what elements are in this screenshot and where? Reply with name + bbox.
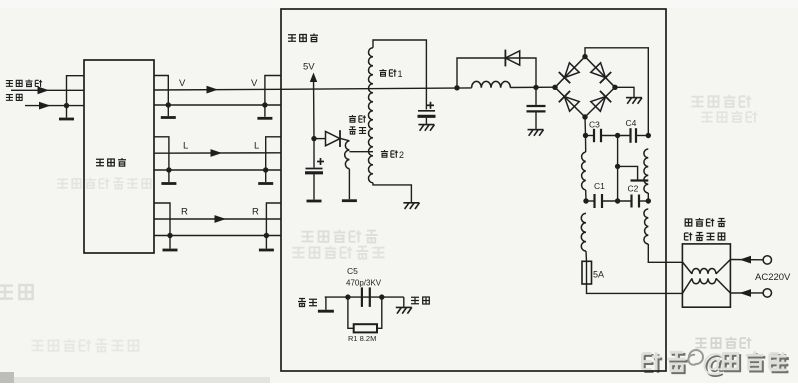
ground hatched node B cap [528,130,544,136]
wire left column upper [585,136,587,153]
ground hot (hatched) [396,307,412,313]
wire bridge bottom [584,117,587,136]
node C2 right [646,198,651,203]
node C3 left [583,133,588,138]
node R right shield junction [264,233,269,238]
diode bridge lower-right [591,97,606,112]
svg-text:C2: C2 [628,184,639,194]
capacitor electrolytic (T1 snubber) [418,110,435,112]
inductor filter winding right-lower [644,209,648,244]
node C5 left [345,294,350,299]
wire R1 left leg [348,297,354,328]
inductor degaussing coil [345,141,350,169]
wire bridge right to ground [615,87,634,97]
label cable (有线电视电缆) [6,81,13,87]
resistor R1 8.2M [354,324,377,332]
node C5 right [379,294,384,299]
arrow cable shield [39,102,51,110]
wire fuse to air switch [587,284,683,293]
node C4 right [646,133,651,138]
capacitor C4 [631,128,637,143]
capacitor electrolytic (5V rail) [306,168,323,170]
svg-text:L: L [254,141,259,152]
node cable shield junction [64,103,69,108]
tap bar junction [631,179,649,181]
node L left shield junction [166,167,171,172]
svg-text:L: L [183,141,188,152]
ground L left [161,182,176,185]
svg-text:C4: C4 [626,118,637,128]
wire right column to air switch [648,244,682,262]
node B main line [533,85,538,90]
wire middle column [617,136,619,202]
terminal circle upper [763,256,771,264]
svg-text:C5: C5 [347,266,358,276]
capacitor C5 470p/3KV [362,287,370,307]
svg-text:V: V [179,78,186,89]
wire tap to right winding [618,166,638,179]
arrow AC lower [740,289,752,297]
wire main line V to inductor [281,88,472,89]
diode bridge upper-right [591,63,606,78]
svg-text:5V: 5V [303,62,315,73]
wire AC terminal lower [730,292,763,294]
capacitor filter (node B) [527,106,546,111]
diode (这里击穿 breakdown here) [326,130,341,147]
node C1/C2 mid [615,198,620,203]
node V left shield junction [166,102,171,107]
ground R right [259,249,274,252]
wire L right hook [266,137,281,182]
inductor filter winding right-upper [644,149,648,193]
ground cold (bar) [318,310,334,313]
wire node B down [535,87,537,105]
wire R shield [154,235,281,237]
wire node to capacitor [313,139,315,168]
svg-text:R: R [181,207,188,218]
wire C3 row [586,135,595,137]
ground cable shield [59,118,74,121]
node C1 left [583,198,588,203]
label 切级2 [381,150,388,157]
node middle tap [615,164,620,169]
wire to fuse [585,251,588,261]
label 空气开关 [685,233,693,241]
wire R1 right leg [377,297,382,328]
wire coil to ground [348,169,350,199]
node V right shield junction [262,102,267,107]
wire cold ground drop [325,297,327,310]
label 热地 hot ground [411,297,419,304]
wire C2 right [639,200,648,202]
wire C3-C4 [601,135,631,137]
wire cable signal in [11,89,84,91]
svg-text:2: 2 [399,150,404,160]
inductor main line filter [472,81,511,87]
fuse 5A [586,261,588,284]
wire 5V column [313,76,316,139]
wire V shield [154,104,281,106]
node A main line [454,85,459,90]
wire bridge top link [585,48,648,136]
wire V right hook [265,76,281,117]
svg-text:C1: C1 [594,181,605,191]
wire right column mid [647,193,649,201]
ground coil [342,199,357,202]
inductor filter winding left-lower [581,213,586,251]
winding air switch lower [682,278,692,293]
wire L left hook [154,137,169,182]
svg-text:R: R [252,207,259,218]
arrow 5V up [310,73,317,83]
wire T1 top link [373,40,426,110]
wire L shield [154,169,281,171]
wire cap to ground [425,118,427,124]
arrow cable signal [38,86,50,94]
ground V left [161,116,176,119]
node bridge right [612,85,617,90]
svg-text:470p/3KV: 470p/3KV [346,279,382,288]
node bridge top [582,54,587,59]
set-top box 机顶盒 [84,60,154,253]
svg-text:V: V [251,78,258,89]
wire main line inductor to bridge [510,86,555,88]
wire left column mid [585,190,587,201]
wire cable shield in [25,105,84,107]
arrow R signal [215,215,227,223]
diode bridge lower-left [564,97,579,112]
diode bypass (points left) [505,50,519,67]
label 这里击穿 [349,115,356,122]
svg-text:R1 8.2M: R1 8.2M [348,334,376,343]
wire hot ground drop [403,297,405,307]
svg-text:5A: 5A [593,270,604,280]
wire R left hook [154,203,170,249]
node bridge bottom [582,114,587,119]
TV set box 电视机 [281,9,666,371]
wire R signal [154,218,281,220]
node L right shield junction [263,167,268,172]
node bridge left [552,85,557,90]
label 冷地 cold ground [298,299,306,307]
capacitor C2 [632,195,640,208]
wire diode cathode to coil [341,139,350,141]
ground hatched T1 bottom [403,203,419,209]
svg-text:C3: C3 [589,120,600,130]
wire bypass branch [457,58,536,88]
wire coil tap to transformer [349,151,373,153]
wire T1 bottom [373,183,411,202]
wire AC terminal upper [730,259,763,261]
terminal circle lower [763,289,771,297]
ground capacitor [307,200,322,203]
wire V left hook [154,76,168,117]
winding air switch upper [682,262,692,274]
wire capacitor to ground [313,174,315,200]
wire R right hook [266,203,281,249]
diode bridge upper-left [565,63,580,78]
ground hatched T1 cap [418,125,434,131]
node R left shield junction [167,233,172,238]
transformer T1 winding (切级1/切级2) [368,48,373,183]
ground V right [257,117,272,120]
ground L right [258,182,273,185]
wire cold-hot ground link [325,296,404,298]
inductor filter winding left-upper [582,152,586,190]
arrow V signal [207,86,219,94]
label 切级1 [379,69,386,76]
wire C1 row [586,200,595,202]
wire cable shield hook [67,76,85,118]
arrow L signal [211,149,223,157]
svg-text:1: 1 [398,69,403,79]
capacitor C3 [594,129,601,142]
capacitor C1 [595,194,603,208]
wire diode anode [314,138,326,140]
ground R left [163,249,178,252]
label 漏电保护 [685,219,692,226]
wire C4 right [636,135,648,137]
wire C1-C2 [602,200,632,202]
bridge rectifier edges [555,57,615,117]
air switch box 漏电保护空气开关 [682,244,730,307]
arrow AC upper [740,256,752,264]
wire V signal (STB to TV) [154,88,281,91]
wire L signal [154,152,281,154]
svg-text:AC220V: AC220V [755,272,791,283]
node C3/C4 mid [615,133,620,138]
ground hatched bridge right [626,98,642,104]
wire cap to ground [535,113,537,129]
node diode anode [311,136,316,141]
